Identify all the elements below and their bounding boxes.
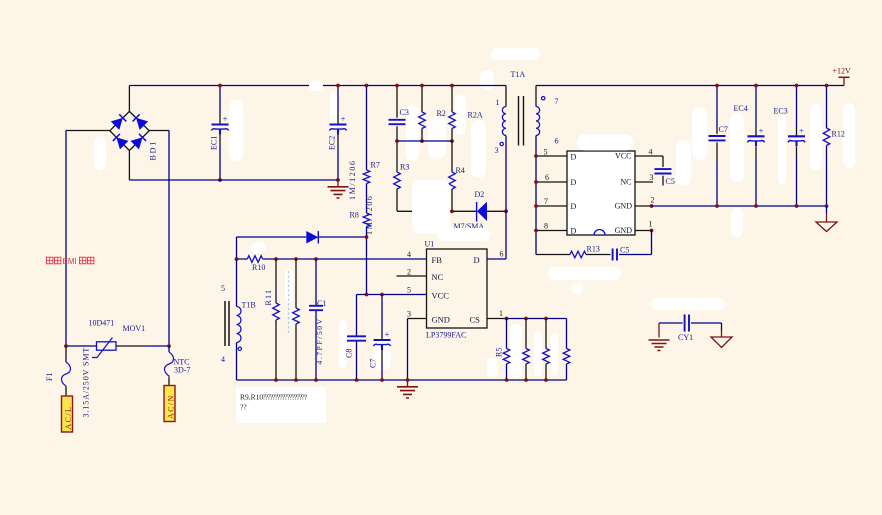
- svg-text:4: 4: [407, 250, 411, 259]
- node C8 bottom: [355, 378, 359, 382]
- node R2A top: [450, 84, 454, 88]
- svg-text:D: D: [571, 178, 577, 187]
- wire CY1 right lead: [721, 323, 723, 330]
- wire CY1 row: [659, 322, 722, 324]
- wire U1 GND stub: [408, 318, 427, 320]
- svg-text:GND: GND: [615, 202, 633, 211]
- svg-text:CY1: CY1: [678, 333, 693, 342]
- wire right AC vertical (NTC column): [168, 131, 170, 347]
- svg-text:NC: NC: [432, 272, 444, 282]
- wire sec loop left: [536, 254, 570, 256]
- wire R5b leads: [525, 319, 527, 381]
- wire C5 lower lead: [662, 176, 664, 186]
- svg-text:R3: R3: [400, 163, 409, 172]
- wire NTC leads: [168, 346, 170, 352]
- node U2 pin1 junction: [650, 229, 654, 233]
- svg-text:VCC: VCC: [432, 291, 450, 301]
- resistor R5d: [563, 349, 570, 365]
- node MOV left: [64, 344, 68, 348]
- resistor R4: [449, 172, 456, 189]
- svg-text:R2: R2: [437, 109, 446, 118]
- resistor R12: [823, 128, 830, 146]
- wire C3 column: [396, 86, 398, 142]
- node U2 pin6: [534, 180, 538, 184]
- wire R11 column: [275, 259, 277, 303]
- wire C7 column: [716, 86, 718, 207]
- bridge diode bottom-left: [112, 133, 128, 149]
- node R12 bottom: [825, 204, 829, 208]
- svg-text:T1A: T1A: [511, 70, 526, 79]
- wire snubber bottom row: [397, 210, 506, 212]
- capacitor C3: [389, 120, 406, 124]
- capacitor C7 electrolytic lowside: [374, 339, 391, 341]
- svg-text:3: 3: [407, 310, 411, 319]
- svg-text:R8: R8: [350, 211, 359, 220]
- svg-text:5: 5: [544, 148, 548, 157]
- node R12 top: [825, 84, 829, 88]
- resistor R5: [503, 349, 510, 365]
- wire EC2 column: [337, 86, 339, 181]
- node CS r5: [505, 317, 509, 321]
- capacitor EC2: [330, 123, 347, 125]
- svg-text:D2: D2: [475, 190, 485, 199]
- svg-text:R9,R10: R9,R10: [240, 393, 263, 402]
- wire R3 leads: [396, 141, 398, 211]
- white-out over top rail: [309, 81, 323, 92]
- wire snubber mid rail: [397, 140, 452, 142]
- svg-text:??????????????????: ??????????????????: [263, 393, 308, 402]
- svg-text:R5: R5: [495, 348, 504, 357]
- wire U2 pin4 stub: [635, 156, 663, 167]
- white-out above U1: [437, 228, 490, 241]
- svg-text:R13: R13: [587, 245, 600, 254]
- wire sec feedback loop right: [619, 231, 652, 255]
- svg-text:LP3799FAC: LP3799FAC: [426, 331, 466, 340]
- ground U1 (earth): [407, 380, 409, 387]
- svg-text:1: 1: [649, 220, 653, 229]
- wire MOV row: [66, 345, 97, 347]
- svg-text:EC2: EC2: [328, 136, 337, 150]
- resistor R10: [247, 256, 262, 263]
- wire FB row: [237, 258, 427, 260]
- node MOV right: [167, 344, 171, 348]
- resistor R2: [419, 112, 426, 129]
- resistor R3: [394, 172, 401, 189]
- node U2 pin7: [534, 204, 538, 208]
- node VCC-R8: [365, 293, 369, 297]
- node C7 bottom: [715, 204, 719, 208]
- wire F1 leads: [65, 346, 67, 362]
- wire DC minus rail: [129, 179, 338, 181]
- wire left AC vertical: [65, 131, 67, 347]
- svg-text:EC3: EC3: [774, 107, 788, 116]
- node C3 top: [395, 84, 399, 88]
- wire VCC row: [357, 294, 427, 296]
- svg-text:D: D: [571, 202, 577, 211]
- resistor R2A: [449, 112, 456, 129]
- svg-text:1: 1: [496, 98, 500, 107]
- pin T1A pin7 phase dot: [542, 97, 545, 100]
- thermistor NTC symbol: [165, 352, 174, 378]
- wire bridge top stub: [128, 86, 130, 112]
- node EC3 bottom: [795, 204, 799, 208]
- resistor R5b: [523, 349, 530, 365]
- svg-text:7: 7: [555, 97, 559, 106]
- wire R4 leads: [451, 141, 453, 211]
- node EC4 bottom: [754, 204, 758, 208]
- node VCC-C7: [380, 293, 384, 297]
- connector ACN: [164, 386, 175, 422]
- svg-text:5: 5: [407, 286, 411, 295]
- node rail C1: [314, 378, 318, 382]
- resistor R8: [363, 213, 370, 227]
- wire U2 pin5 stub: [536, 155, 567, 157]
- svg-text:C5: C5: [666, 177, 675, 186]
- wire CS row: [507, 318, 567, 320]
- node C7 lowside bottom: [380, 378, 384, 382]
- resistor R11: [273, 303, 280, 320]
- node C1 top: [314, 257, 318, 261]
- ground CY1 right (triangle): [711, 337, 732, 348]
- capacitor C7: [709, 136, 726, 140]
- node rail R5: [505, 378, 509, 382]
- wire R2 column: [421, 86, 423, 142]
- varistor MOV1: [97, 342, 117, 350]
- svg-text:3: 3: [650, 173, 654, 182]
- white-out over U2 top edge: [577, 134, 633, 151]
- wire R2A column: [451, 86, 453, 142]
- node rail R9: [294, 378, 298, 382]
- node EC2 bottom: [336, 178, 340, 182]
- svg-text:BD1: BD1: [149, 140, 158, 161]
- ic U1 box: [427, 249, 488, 328]
- wire T1B top lead: [236, 259, 238, 307]
- wire T1A secondary bus: [535, 136, 537, 255]
- label EMI note CJK glyphs: [47, 257, 53, 264]
- svg-text:F1: F1: [45, 373, 54, 381]
- svg-text:+12V: +12V: [833, 67, 852, 76]
- svg-text:C8: C8: [345, 349, 354, 358]
- wire top rail right section: [536, 85, 844, 87]
- bridge rectifier BD1 diamond: [110, 111, 149, 150]
- node D2 left: [450, 209, 454, 213]
- svg-text:C7: C7: [369, 359, 378, 368]
- node EC2 top: [336, 84, 340, 88]
- transformer T1B winding: [237, 307, 242, 343]
- svg-text:3D-7: 3D-7: [174, 366, 190, 375]
- capacitor C5 (VCC): [655, 169, 672, 173]
- svg-text:R10: R10: [252, 263, 265, 272]
- wire T1B bottom lead: [236, 343, 238, 381]
- capacitor C8: [347, 336, 366, 340]
- wire T1A primary stub: [505, 86, 507, 107]
- node CS rb: [524, 317, 528, 321]
- svg-text:3.15A/250V SMT: 3.15A/250V SMT: [82, 347, 91, 418]
- bridge diode top-right: [132, 114, 148, 130]
- node EC1 bottom: [218, 178, 222, 182]
- wire R9 column: [295, 259, 297, 308]
- wire U1 NC stub: [397, 275, 427, 277]
- transformer T1A primary winding: [502, 107, 506, 136]
- node R9 top: [294, 257, 298, 261]
- svg-text:AC/N: AC/N: [167, 394, 176, 419]
- svg-text:7: 7: [544, 197, 548, 206]
- svg-text:6: 6: [545, 173, 549, 182]
- node EC3 top: [795, 84, 799, 88]
- wire R5d leads: [566, 319, 568, 381]
- svg-text:??: ??: [240, 403, 247, 412]
- wire U1 D stub: [487, 258, 506, 260]
- wire EC4 column: [755, 86, 757, 207]
- wire bridge left stub: [66, 130, 110, 132]
- wire T1A primary down (drain line): [505, 136, 507, 260]
- ground CY1 left (earth): [649, 340, 670, 351]
- resistor R13: [570, 251, 586, 258]
- svg-text:+: +: [799, 126, 804, 136]
- svg-text:FB: FB: [432, 255, 443, 265]
- wire C7 (lowside) leads: [381, 295, 383, 381]
- capacitor EC4: [748, 135, 765, 137]
- svg-text:C3: C3: [400, 108, 409, 117]
- node U2 pin5: [534, 154, 538, 158]
- capacitor EC3: [788, 135, 805, 137]
- wire U1 CS stub: [487, 318, 507, 320]
- svg-text:R7: R7: [371, 161, 380, 170]
- wire C8 leads: [356, 295, 358, 381]
- wire EC3 column: [796, 86, 798, 207]
- svg-text:EC4: EC4: [734, 104, 748, 113]
- wire U2 pin1 stub: [635, 230, 652, 232]
- svg-text:C7: C7: [719, 125, 728, 134]
- diode D1: [306, 231, 318, 244]
- node R11 top: [274, 257, 278, 261]
- white-out patches (scan artifacts): [229, 100, 243, 161]
- node diode row right: [365, 235, 369, 239]
- capacitor C5 (snubber): [613, 249, 617, 261]
- svg-text:D: D: [474, 255, 480, 265]
- svg-text:NC: NC: [620, 178, 631, 187]
- wire diode row: [237, 236, 367, 238]
- svg-text:GND: GND: [615, 226, 633, 235]
- wire U2 pin3 stub: [635, 181, 653, 183]
- svg-text:1M/1206: 1M/1206: [348, 159, 357, 200]
- svg-text:1: 1: [499, 309, 503, 318]
- svg-text:VCC: VCC: [615, 152, 631, 161]
- transformer T1A core: [519, 96, 524, 146]
- svg-text:8: 8: [544, 222, 548, 231]
- svg-text:T1B: T1B: [242, 301, 256, 310]
- resistor R5c: [543, 349, 550, 365]
- resistor R9: [293, 308, 300, 324]
- wire C1 column: [315, 259, 317, 380]
- wire R7R8 column: [366, 86, 368, 295]
- svg-text:4.7PF/50V: 4.7PF/50V: [315, 317, 324, 364]
- wire U2 pin2 stub: [635, 205, 652, 207]
- svg-text:2: 2: [651, 196, 655, 205]
- wire U2 pin6 stub: [536, 181, 567, 183]
- node U1 gnd rail: [406, 378, 410, 382]
- transformer T1A secondary winding: [536, 107, 540, 136]
- svg-text:R4: R4: [456, 166, 465, 175]
- svg-text:1M/1206: 1M/1206: [365, 194, 374, 235]
- capacitor C1: [309, 306, 323, 310]
- white-out note background: [236, 387, 326, 423]
- node U2 pin8: [534, 229, 538, 233]
- node R2 bottom: [420, 139, 424, 143]
- pin T1B phase dot: [238, 347, 241, 350]
- svg-text:+: +: [223, 114, 228, 124]
- node EC4 top: [754, 84, 758, 88]
- ground output (triangle): [826, 206, 828, 213]
- svg-text:+: +: [341, 114, 346, 124]
- node R7R8 top: [365, 84, 369, 88]
- node C7 top: [715, 84, 719, 88]
- node R2A bottom: [450, 139, 454, 143]
- wire CY1 left lead: [658, 323, 660, 338]
- wire bridge bottom stub: [128, 151, 130, 181]
- wire output bottom rail: [652, 205, 827, 207]
- bridge diode bottom-right: [130, 133, 146, 149]
- svg-text:4: 4: [221, 355, 225, 364]
- node FB left: [235, 257, 239, 261]
- ground primary (below EC2): [337, 180, 339, 187]
- node CS rc: [544, 317, 548, 321]
- svg-text:EC1: EC1: [210, 136, 219, 150]
- wire T1A secondary stub: [535, 86, 537, 107]
- connector ACL: [62, 396, 73, 432]
- wire top rail left section: [129, 85, 506, 87]
- scan artifact dashed line: [288, 271, 290, 335]
- svg-text:6: 6: [500, 250, 504, 259]
- svg-text:MOV1: MOV1: [123, 324, 146, 333]
- svg-text:D: D: [571, 153, 577, 162]
- node rail R5b: [524, 378, 528, 382]
- svg-text:AC/L: AC/L: [64, 406, 73, 430]
- sync-rectifier IC U2 box: [567, 151, 635, 235]
- svg-text:C1: C1: [317, 299, 326, 308]
- svg-text:10D471: 10D471: [89, 319, 115, 328]
- svg-text:R11: R11: [264, 289, 273, 306]
- node U2 pin2 junction: [650, 204, 654, 208]
- capacitor EC1: [212, 123, 229, 125]
- svg-text:EMI: EMI: [63, 257, 77, 266]
- wire R5 leads: [506, 319, 508, 381]
- wire sec loop mid: [586, 254, 611, 256]
- wire U2 pin8 stub: [536, 230, 567, 232]
- white-out snubber area: [412, 180, 450, 234]
- wire left branch vertical: [236, 237, 238, 259]
- node R3 top: [395, 139, 399, 143]
- fuse F1 symbol: [62, 362, 71, 386]
- wire U2 pin7 stub: [536, 205, 567, 207]
- svg-text:R2A: R2A: [468, 111, 483, 120]
- node rail R11: [274, 378, 278, 382]
- transformer T1B core: [225, 301, 229, 346]
- wire bridge right stub: [149, 130, 169, 132]
- svg-text:+: +: [759, 126, 764, 136]
- svg-text:D: D: [571, 227, 577, 236]
- svg-text:5: 5: [221, 284, 225, 293]
- svg-text:U1: U1: [425, 240, 435, 249]
- wire R5c leads: [545, 319, 547, 381]
- power +12V symbol: [843, 78, 845, 86]
- wire R12 column: [826, 86, 828, 207]
- node D2 right: [504, 209, 508, 213]
- svg-text:+: +: [385, 329, 390, 339]
- svg-text:2: 2: [407, 268, 411, 277]
- node rail R5c: [544, 378, 548, 382]
- svg-text:R12: R12: [832, 130, 845, 139]
- svg-text:GND: GND: [432, 315, 450, 325]
- resistor R7: [363, 170, 370, 184]
- svg-text:C5: C5: [620, 246, 629, 255]
- svg-text:6: 6: [555, 137, 559, 146]
- node R2 top: [420, 84, 424, 88]
- wire bottom rail (controller): [237, 379, 567, 381]
- node EC1 top: [218, 84, 222, 88]
- diode D2: [477, 202, 487, 221]
- svg-text:CS: CS: [470, 315, 481, 325]
- wire EC1 column: [219, 86, 221, 181]
- svg-text:4: 4: [649, 148, 653, 157]
- pin T1A pin3 phase dot: [500, 142, 503, 145]
- capacitor CY1: [685, 315, 689, 332]
- svg-text:3: 3: [495, 146, 499, 155]
